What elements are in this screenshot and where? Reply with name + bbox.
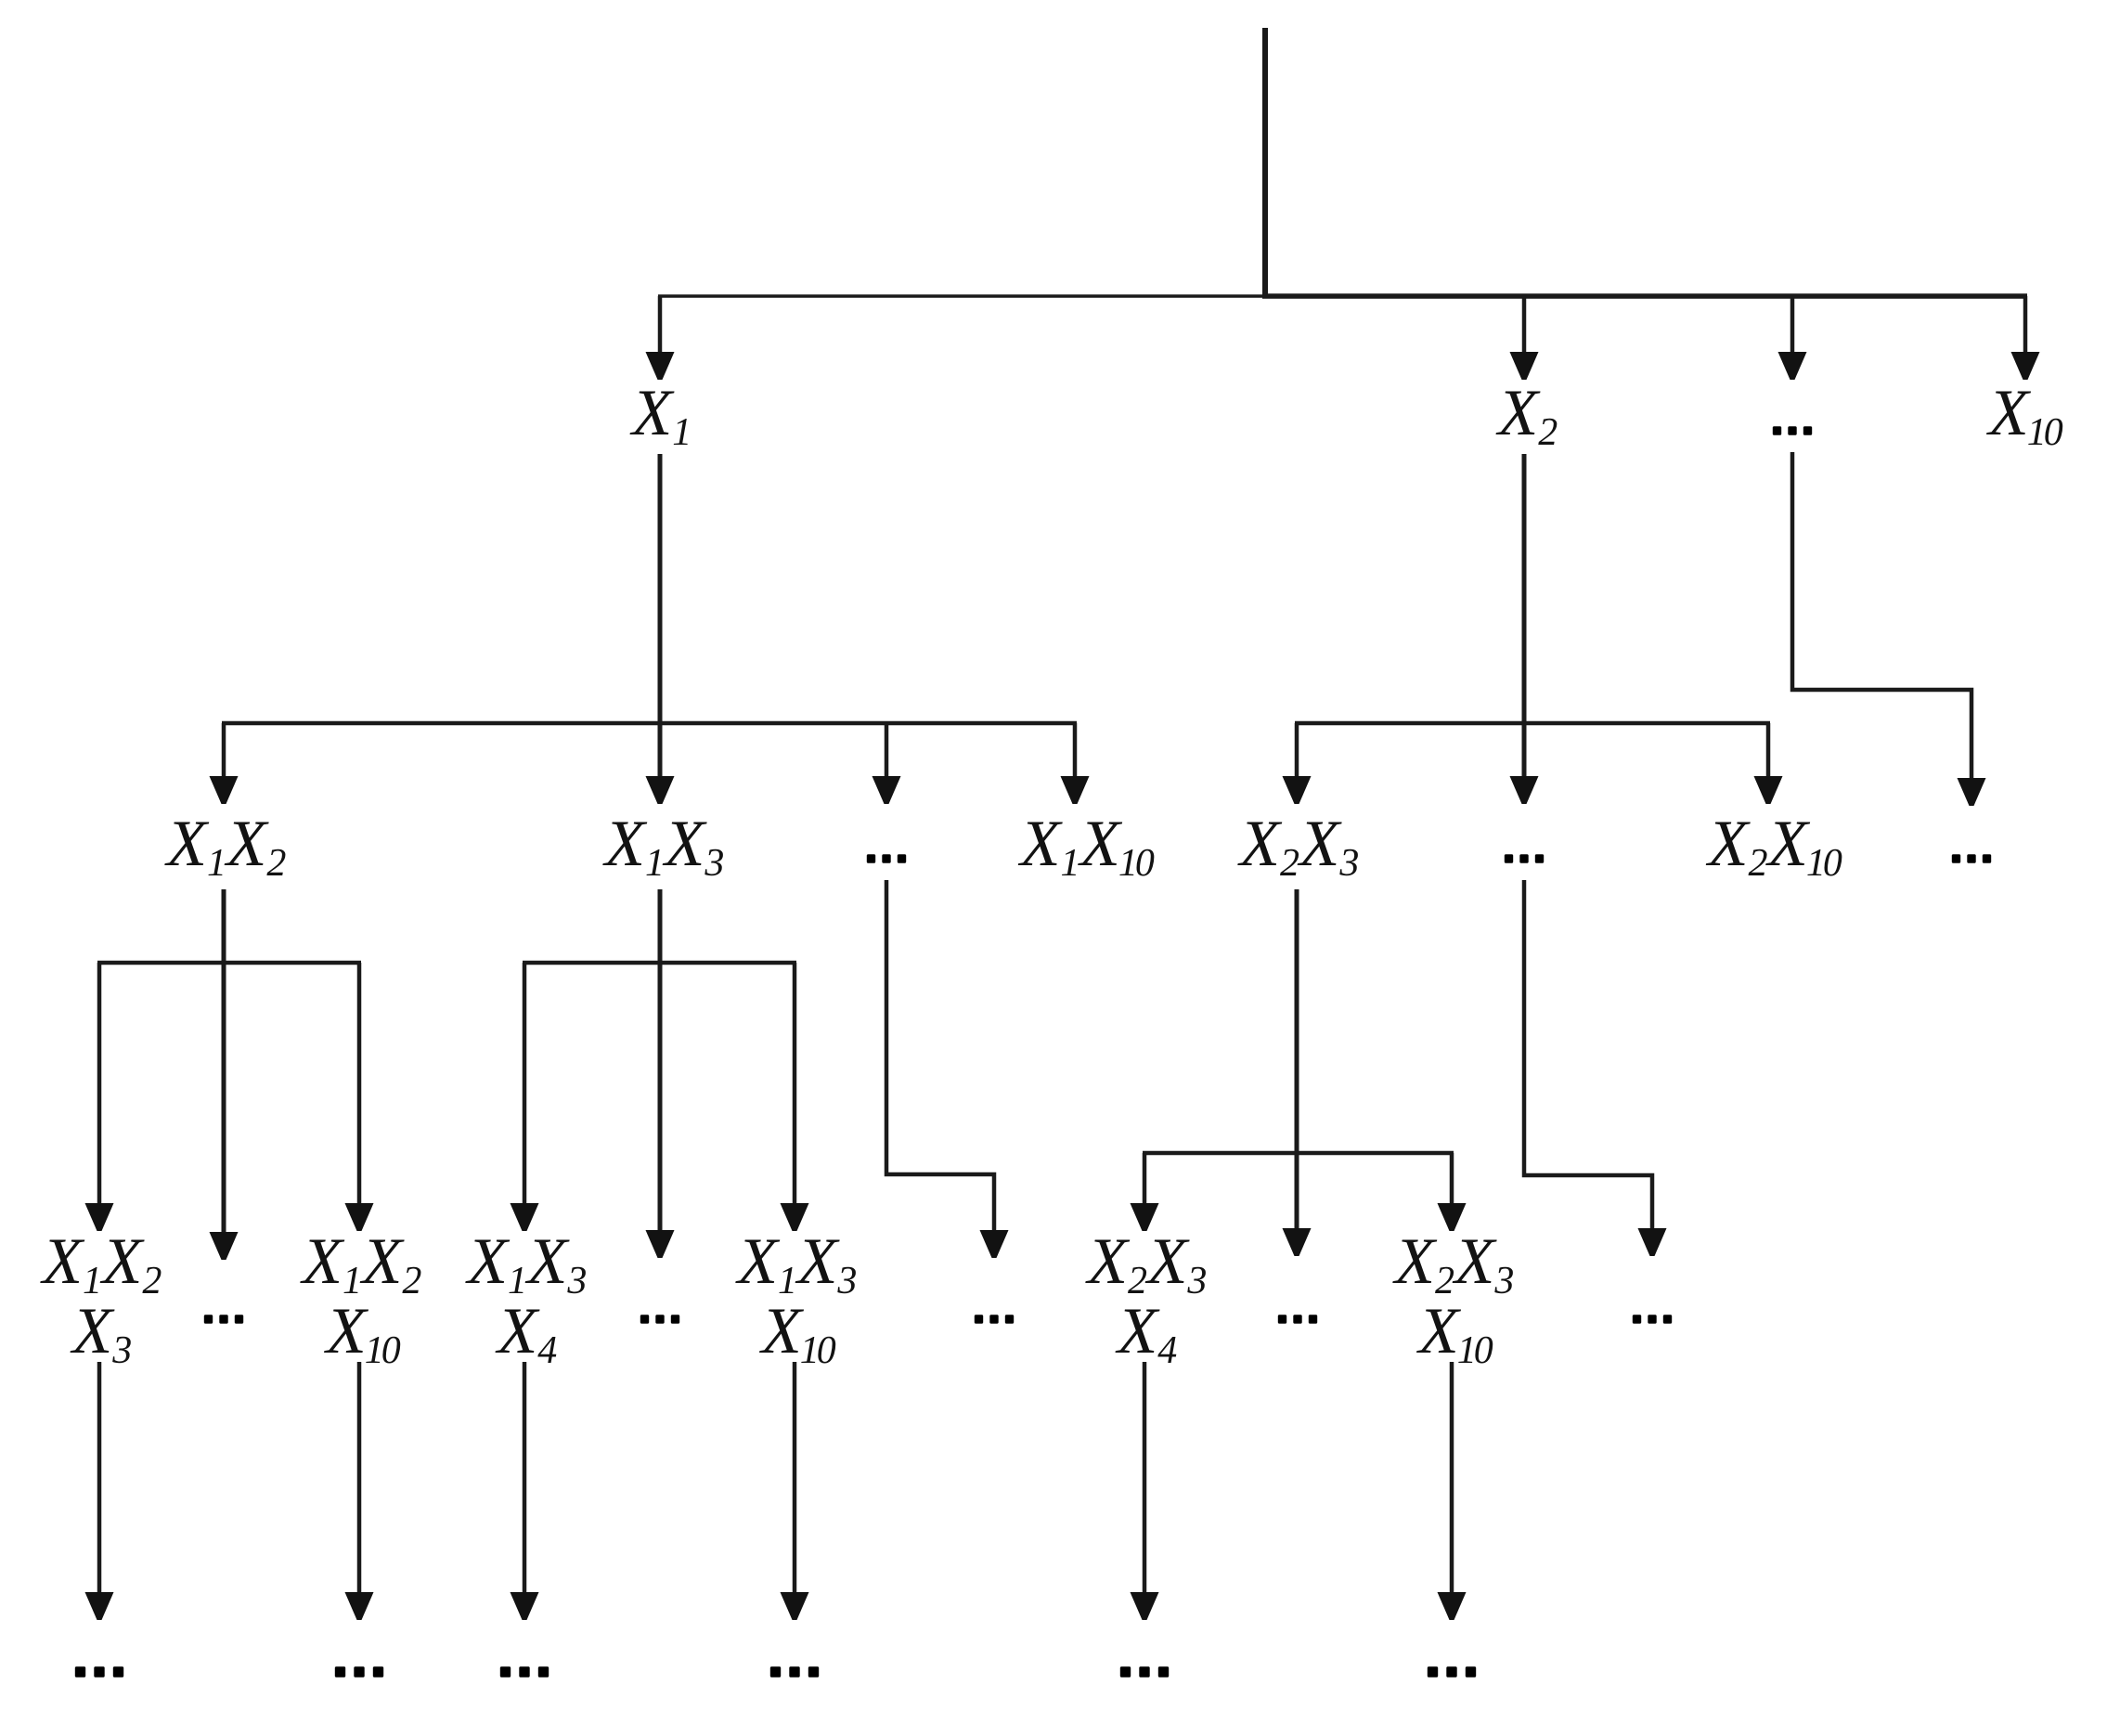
arrowhead to X1X2X3 [85,1203,114,1231]
arrowhead to X10 [2011,352,2040,380]
continuation line below X1X3X10 [793,1362,797,1594]
svg-text:X2X3: X2X3 [1392,1225,1515,1302]
branch line to X1X10 [1073,723,1078,778]
level-2 bar under X2 [1295,721,1770,726]
arrowhead below X1X2X10 [345,1592,374,1620]
branch line to X2X3 [1295,723,1299,778]
svg-text:X4: X4 [495,1295,557,1372]
svg-text:X2X10: X2X10 [1705,808,1842,885]
level-1 ellipsis node [1773,426,1812,434]
arrowhead to ellipsis under X2X3 [1283,1228,1312,1256]
arrowhead of elbow connector (row 2 right ellipsis) [1958,778,1986,806]
arrowhead to X1X10 [1061,776,1090,804]
level-3 bar under X1X2 [97,961,361,965]
arrowhead to X2X10 [1754,776,1783,804]
row-3 ellipsis from left elbow [975,1315,1014,1323]
svg-text:X10: X10 [323,1295,400,1372]
stem from X1X2 through level-3 bar [222,889,226,1236]
row-3 ellipsis under X1X3 [640,1315,679,1323]
arrowhead to X1X3 [646,776,675,804]
arrowhead to X1X2X10 [345,1203,374,1231]
row-3 ellipsis under X2X3 [1278,1315,1317,1323]
branch line to X2X3X4 [1143,1153,1147,1205]
svg-text:X2X3: X2X3 [1085,1225,1208,1302]
arrowhead to X2 [1510,352,1539,380]
elbow connector from level-1 ellipsis [1792,452,1971,780]
arrowhead to X1X3X4 [511,1203,539,1231]
continuation line below X2X3X10 [1450,1362,1454,1594]
arrowhead to level-1 ellipsis [1778,352,1807,380]
svg-text:X10: X10 [1985,377,2062,454]
svg-text:X1: X1 [629,377,692,454]
bottom ellipsis below X2X3X10 [1428,1666,1476,1677]
svg-text:X2: X2 [1495,377,1558,454]
arrowhead below X1X3X4 [511,1592,539,1620]
stem from X2 through level-2 bar to ellipsis arrow [1522,454,1527,780]
svg-text:X4: X4 [1115,1295,1177,1372]
bottom ellipsis below X1X3X10 [770,1666,819,1677]
bottom ellipsis below X1X2X10 [335,1666,383,1677]
arrowhead to ellipsis under X1 [873,776,901,804]
branch line to X1X2 [222,723,226,778]
arrowhead below X1X2X3 [85,1592,114,1620]
arrowhead below X2X3X10 [1438,1592,1467,1620]
bottom ellipsis below X2X3X4 [1120,1666,1169,1677]
bottom ellipsis below X1X2X3 [75,1666,123,1677]
branch line to level-1 ellipsis [1790,296,1795,355]
arrowhead to X2X3X4 [1131,1203,1159,1231]
arrowhead of elbow (row-3 ellipsis) [980,1230,1009,1258]
svg-text:X1X3: X1X3 [602,808,725,885]
branch line to X1X3X10 [793,963,797,1205]
level-1 bar (left half) [658,294,1265,298]
arrowhead to X1X2 [210,776,239,804]
svg-text:X1X3: X1X3 [735,1225,858,1302]
arrowhead to X1X3X10 [781,1203,809,1231]
branch line to ellipsis under X1 [885,723,889,778]
svg-text:X10: X10 [1415,1295,1493,1372]
svg-text:X2X3: X2X3 [1237,808,1360,885]
level-3 bar under X1X3 [523,961,796,965]
arrowhead below X2X3X4 [1131,1592,1159,1620]
arrowhead to ellipsis under X2 [1510,776,1539,804]
svg-text:X1X2: X1X2 [164,808,287,885]
svg-text:X10: X10 [758,1295,835,1372]
branch line to X1X2X3 [97,963,102,1205]
arrowhead to X2X3X10 [1438,1203,1467,1231]
svg-text:X1X10: X1X10 [1017,808,1155,885]
branch line to X1X2X10 [357,963,362,1205]
arrowhead to ellipsis under X1X3 [646,1230,675,1258]
row-3 ellipsis from right elbow [1633,1315,1672,1323]
stem from X1X3 through level-3 bar [658,889,663,1234]
level-3 bar under X2X3 [1143,1151,1454,1156]
arrowhead below X1X3X10 [781,1592,809,1620]
branch line to X10 [2023,296,2028,355]
row-3 ellipsis under X1X2 [204,1315,243,1323]
stem from X1 through level-2 bar to X1X3 arrow [658,454,663,780]
continuation line below X1X3X4 [523,1362,527,1594]
root trunk line [1262,28,1268,298]
continuation line below X1X2X3 [97,1362,102,1594]
arrowhead to ellipsis under X1X2 [210,1232,239,1260]
row-2 ellipsis node under X2 [1505,854,1544,862]
svg-text:X3: X3 [70,1295,132,1372]
branch line to X2 [1522,296,1527,355]
continuation line below X2X3X4 [1143,1362,1147,1594]
arrowhead of right elbow (row-3 ellipsis) [1638,1228,1667,1256]
level-2 bar under X1 [222,721,1077,726]
svg-text:X1X2: X1X2 [300,1225,422,1302]
row-2 ellipsis node under X1 [867,854,906,862]
branch line to X1 [658,296,663,355]
stem from X2X3 through level-3 bar [1295,889,1299,1232]
level-1 bar (right half) [1262,293,2027,299]
elbow connector from row-2 ellipsis under X2 [1524,880,1652,1232]
continuation line below X1X2X10 [357,1362,362,1594]
branch line to X2X3X10 [1450,1153,1454,1205]
branch line to X2X10 [1766,723,1771,778]
svg-text:X1X3: X1X3 [465,1225,588,1302]
elbow connector from row-2 ellipsis under X1 [886,880,994,1234]
bottom ellipsis below X1X3X4 [500,1666,549,1677]
svg-text:X1X2: X1X2 [40,1225,162,1302]
branch line to X1X3X4 [523,963,527,1205]
arrowhead to X1 [646,352,675,380]
arrowhead to X2X3 [1283,776,1312,804]
row-2 right ellipsis node [1952,854,1991,862]
